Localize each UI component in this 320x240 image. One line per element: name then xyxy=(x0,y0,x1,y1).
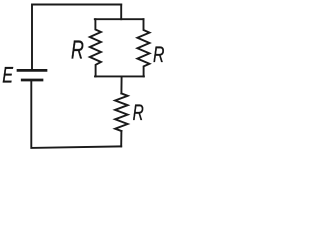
svg-text:R: R xyxy=(71,35,84,64)
resistor R3 series zigzag xyxy=(115,93,128,131)
svg-text:R: R xyxy=(133,102,144,126)
resistor R2 right parallel branch zigzag xyxy=(137,19,149,76)
wire from series resistor to bottom wire xyxy=(120,131,122,146)
battery E bottom plate (short) xyxy=(22,79,42,82)
node top bar of parallel pair xyxy=(95,18,144,20)
wire feed down to parallel top bar xyxy=(120,5,122,20)
wire top from source to feed corner xyxy=(32,5,121,70)
resistor R1 left parallel branch zigzag xyxy=(90,19,101,76)
wire from bottom bar down to series resistor xyxy=(120,76,122,93)
wire bottom return xyxy=(31,81,121,148)
svg-text:E: E xyxy=(2,64,13,88)
battery E top plate (long) xyxy=(18,69,46,72)
svg-text:R: R xyxy=(153,44,165,68)
node bottom bar of parallel pair xyxy=(95,75,144,77)
